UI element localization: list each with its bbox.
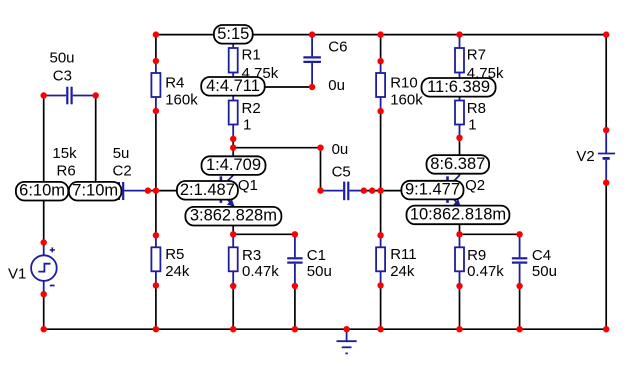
- junction V2 rail corner: [603, 326, 609, 332]
- svg-text:1: 1: [243, 116, 251, 133]
- node 7 label 7:10m: [69, 182, 122, 201]
- svg-text:C6: C6: [328, 38, 347, 55]
- junction V1 minus: [41, 291, 47, 297]
- junction R10 top: [377, 58, 383, 64]
- svg-text:0u: 0u: [332, 141, 349, 158]
- resistor R1: [229, 35, 238, 87]
- junction Q1 emitter: [230, 231, 236, 237]
- junction V1 plus: [41, 239, 47, 245]
- svg-text:2:1.487: 2:1.487: [180, 181, 235, 199]
- junction R5 bottom: [153, 282, 159, 288]
- wire C3 right down to node 7: [95, 96, 97, 191]
- wire node 4 to C6: [233, 86, 312, 88]
- svg-text:R9: R9: [467, 247, 486, 264]
- junction R11 top: [377, 232, 383, 238]
- node 8 label 8:6.387: [427, 155, 490, 174]
- resistor R9: [455, 234, 464, 286]
- junction C2 right lead: [145, 187, 151, 193]
- capacitor C2: [96, 182, 148, 200]
- node 11 label 11:6.389: [422, 78, 496, 97]
- resistor R7: [455, 35, 464, 87]
- svg-text:15k: 15k: [52, 145, 77, 162]
- node 5 label 5:15: [214, 25, 253, 44]
- svg-text:1:4.709: 1:4.709: [206, 156, 261, 174]
- junction R5 rail: [153, 326, 159, 332]
- svg-text:R10: R10: [390, 74, 418, 91]
- junction rail R4: [153, 31, 159, 37]
- wire R11 bottom to rail: [380, 285, 382, 329]
- junction C5 right lead: [361, 187, 367, 193]
- svg-text:C3: C3: [53, 68, 72, 85]
- junction C1 rail: [292, 326, 298, 332]
- svg-text:5:15: 5:15: [217, 25, 249, 43]
- svg-text:8:6.387: 8:6.387: [430, 155, 485, 173]
- node 6 label 6:10m: [16, 182, 68, 201]
- transistor Q2: [448, 138, 461, 235]
- capacitor C3: [44, 87, 96, 105]
- junction R4 top: [153, 58, 159, 64]
- svg-text:R2: R2: [242, 100, 261, 117]
- wire R4 top lead to rail: [155, 35, 157, 61]
- svg-text:C1: C1: [307, 247, 326, 264]
- svg-text:C4: C4: [532, 247, 551, 264]
- junction C1 top: [292, 231, 298, 237]
- junction rail R7: [456, 31, 462, 37]
- junction output corner: [317, 145, 323, 151]
- svg-text:0.47k: 0.47k: [467, 263, 504, 280]
- junction input node: [153, 187, 159, 193]
- junction R10 bottom: [377, 108, 383, 114]
- battery V2: [598, 130, 615, 183]
- wire V2 bottom to ground rail: [605, 183, 607, 330]
- junction R9 bottom: [456, 283, 462, 289]
- wire R9 bottom to rail: [459, 286, 461, 329]
- node 3 label 3:862.828m: [185, 207, 281, 226]
- junction C4 rail: [516, 326, 522, 332]
- svg-text:R5: R5: [165, 246, 184, 263]
- junction R2 bottom: [230, 136, 236, 142]
- junction C1 bottom: [292, 283, 298, 289]
- svg-text:160k: 160k: [165, 91, 198, 108]
- svg-text:7:10m: 7:10m: [72, 182, 118, 200]
- junction C3 right: [93, 92, 99, 98]
- wire R10 top lead to rail: [380, 35, 382, 62]
- svg-text:10:862.818m: 10:862.818m: [410, 205, 506, 223]
- junction C4 top: [516, 231, 522, 237]
- transistor Q1: [221, 148, 234, 235]
- wire C1 bottom to rail: [294, 286, 296, 329]
- svg-text:R8: R8: [467, 100, 486, 117]
- svg-text:V1: V1: [8, 265, 26, 282]
- svg-text:C5: C5: [332, 163, 351, 180]
- svg-text:Q2: Q2: [465, 177, 485, 194]
- voltage source V1: [31, 243, 57, 295]
- junction R11 bottom: [377, 282, 383, 288]
- wire Q1 emitter row to C1: [233, 233, 295, 235]
- node 2 label 2:1.487: [177, 181, 238, 200]
- svg-text:V2: V2: [576, 148, 594, 165]
- wire top supply rail: [156, 34, 606, 36]
- junction R3 rail: [230, 326, 236, 332]
- junction V1 rail corner: [41, 326, 47, 332]
- svg-text:3:862.828m: 3:862.828m: [190, 207, 277, 225]
- wire R10 bottom through C5 node to R11: [380, 111, 382, 235]
- junction rail C6: [309, 31, 315, 37]
- node 4 label 4:4.711: [201, 77, 265, 96]
- junction C5 wire mid: [369, 187, 375, 193]
- svg-text:0u: 0u: [328, 77, 345, 94]
- capacitor C4: [512, 234, 527, 286]
- junction C4 bottom: [516, 283, 522, 289]
- wire R5 bottom to rail: [155, 285, 157, 329]
- svg-text:4:4.711: 4:4.711: [206, 77, 260, 95]
- junction R5 top: [153, 232, 159, 238]
- svg-text:R3: R3: [242, 247, 261, 264]
- wire R4 bottom through input node to R5: [155, 111, 157, 235]
- svg-text:5u: 5u: [113, 145, 130, 162]
- wire C4 bottom to rail: [519, 286, 521, 329]
- svg-text:160k: 160k: [390, 91, 423, 108]
- junction C3 left: [41, 92, 47, 98]
- ground: [337, 329, 357, 353]
- node 1 label 1:4.709: [202, 156, 266, 175]
- svg-text:0.47k: 0.47k: [242, 263, 279, 280]
- junction V2 top: [603, 127, 609, 133]
- capacitor C5: [321, 182, 364, 201]
- svg-text:C2: C2: [113, 163, 132, 180]
- wire bottom ground rail: [44, 328, 607, 330]
- svg-text:50u: 50u: [532, 263, 557, 280]
- junction ground rail: [343, 326, 349, 332]
- capacitor C1: [287, 234, 302, 286]
- svg-text:R11: R11: [390, 246, 416, 263]
- wire V1 top to node 6 and C3 left: [43, 96, 45, 243]
- junction Q1 collector tap: [230, 145, 236, 151]
- wire Q2 emitter row to C4: [460, 233, 520, 235]
- resistor R2: [229, 87, 238, 139]
- wire V2 top lead from rail: [605, 35, 607, 131]
- junction C5 left: [317, 187, 323, 193]
- resistor R8: [455, 87, 464, 138]
- svg-text:24k: 24k: [165, 263, 190, 280]
- wire branch to Q1 base: [156, 190, 221, 192]
- junction C6 bottom: [309, 84, 315, 90]
- svg-text:Q1: Q1: [238, 177, 258, 194]
- wire C5 right to branch: [364, 190, 381, 192]
- junction R9 rail: [456, 326, 462, 332]
- junction R4 bottom: [153, 108, 159, 114]
- junction rail V2 corner: [603, 31, 609, 37]
- junction Q2 emitter: [456, 231, 462, 237]
- node 10 label 10:862.818m: [407, 205, 510, 224]
- svg-text:9:1.477: 9:1.477: [405, 181, 460, 199]
- resistor R5: [151, 235, 160, 285]
- resistor R10: [376, 61, 385, 111]
- junction Q2 base node: [377, 187, 383, 193]
- resistor R3: [229, 234, 238, 286]
- svg-text:R6: R6: [57, 163, 76, 180]
- NODE VOLTAGE LABELS: [16, 25, 510, 226]
- wire V1 bottom to rail: [43, 294, 45, 329]
- svg-text:R7: R7: [467, 47, 486, 64]
- COMPONENT TEXT LABELS: [8, 38, 595, 282]
- resistor R11: [376, 235, 385, 285]
- svg-text:1: 1: [468, 116, 476, 133]
- junction R11 rail: [377, 326, 383, 332]
- junction V2 bottom: [603, 180, 609, 186]
- wire branch to Q2 base: [381, 190, 448, 192]
- junction rail R10: [377, 31, 383, 37]
- junction R3 bottom: [230, 283, 236, 289]
- node 9 label 9:1.477: [401, 181, 463, 200]
- svg-text:6:10m: 6:10m: [19, 182, 65, 200]
- svg-text:11:6.389: 11:6.389: [427, 78, 490, 96]
- wire Q1 collector tap to C5: [233, 148, 320, 191]
- svg-text:24k: 24k: [390, 263, 415, 280]
- resistor R4: [151, 61, 160, 111]
- svg-text:R1: R1: [242, 47, 261, 64]
- svg-text:R4: R4: [165, 74, 184, 91]
- capacitor C6: [303, 35, 321, 87]
- wire C2 right to branch: [148, 190, 156, 192]
- junction R8 bottom: [456, 135, 462, 141]
- wire R2 bottom to Q1 collector tap: [232, 139, 234, 148]
- svg-text:50u: 50u: [50, 50, 75, 67]
- svg-text:50u: 50u: [307, 263, 332, 280]
- wire R3 bottom to rail: [232, 286, 234, 329]
